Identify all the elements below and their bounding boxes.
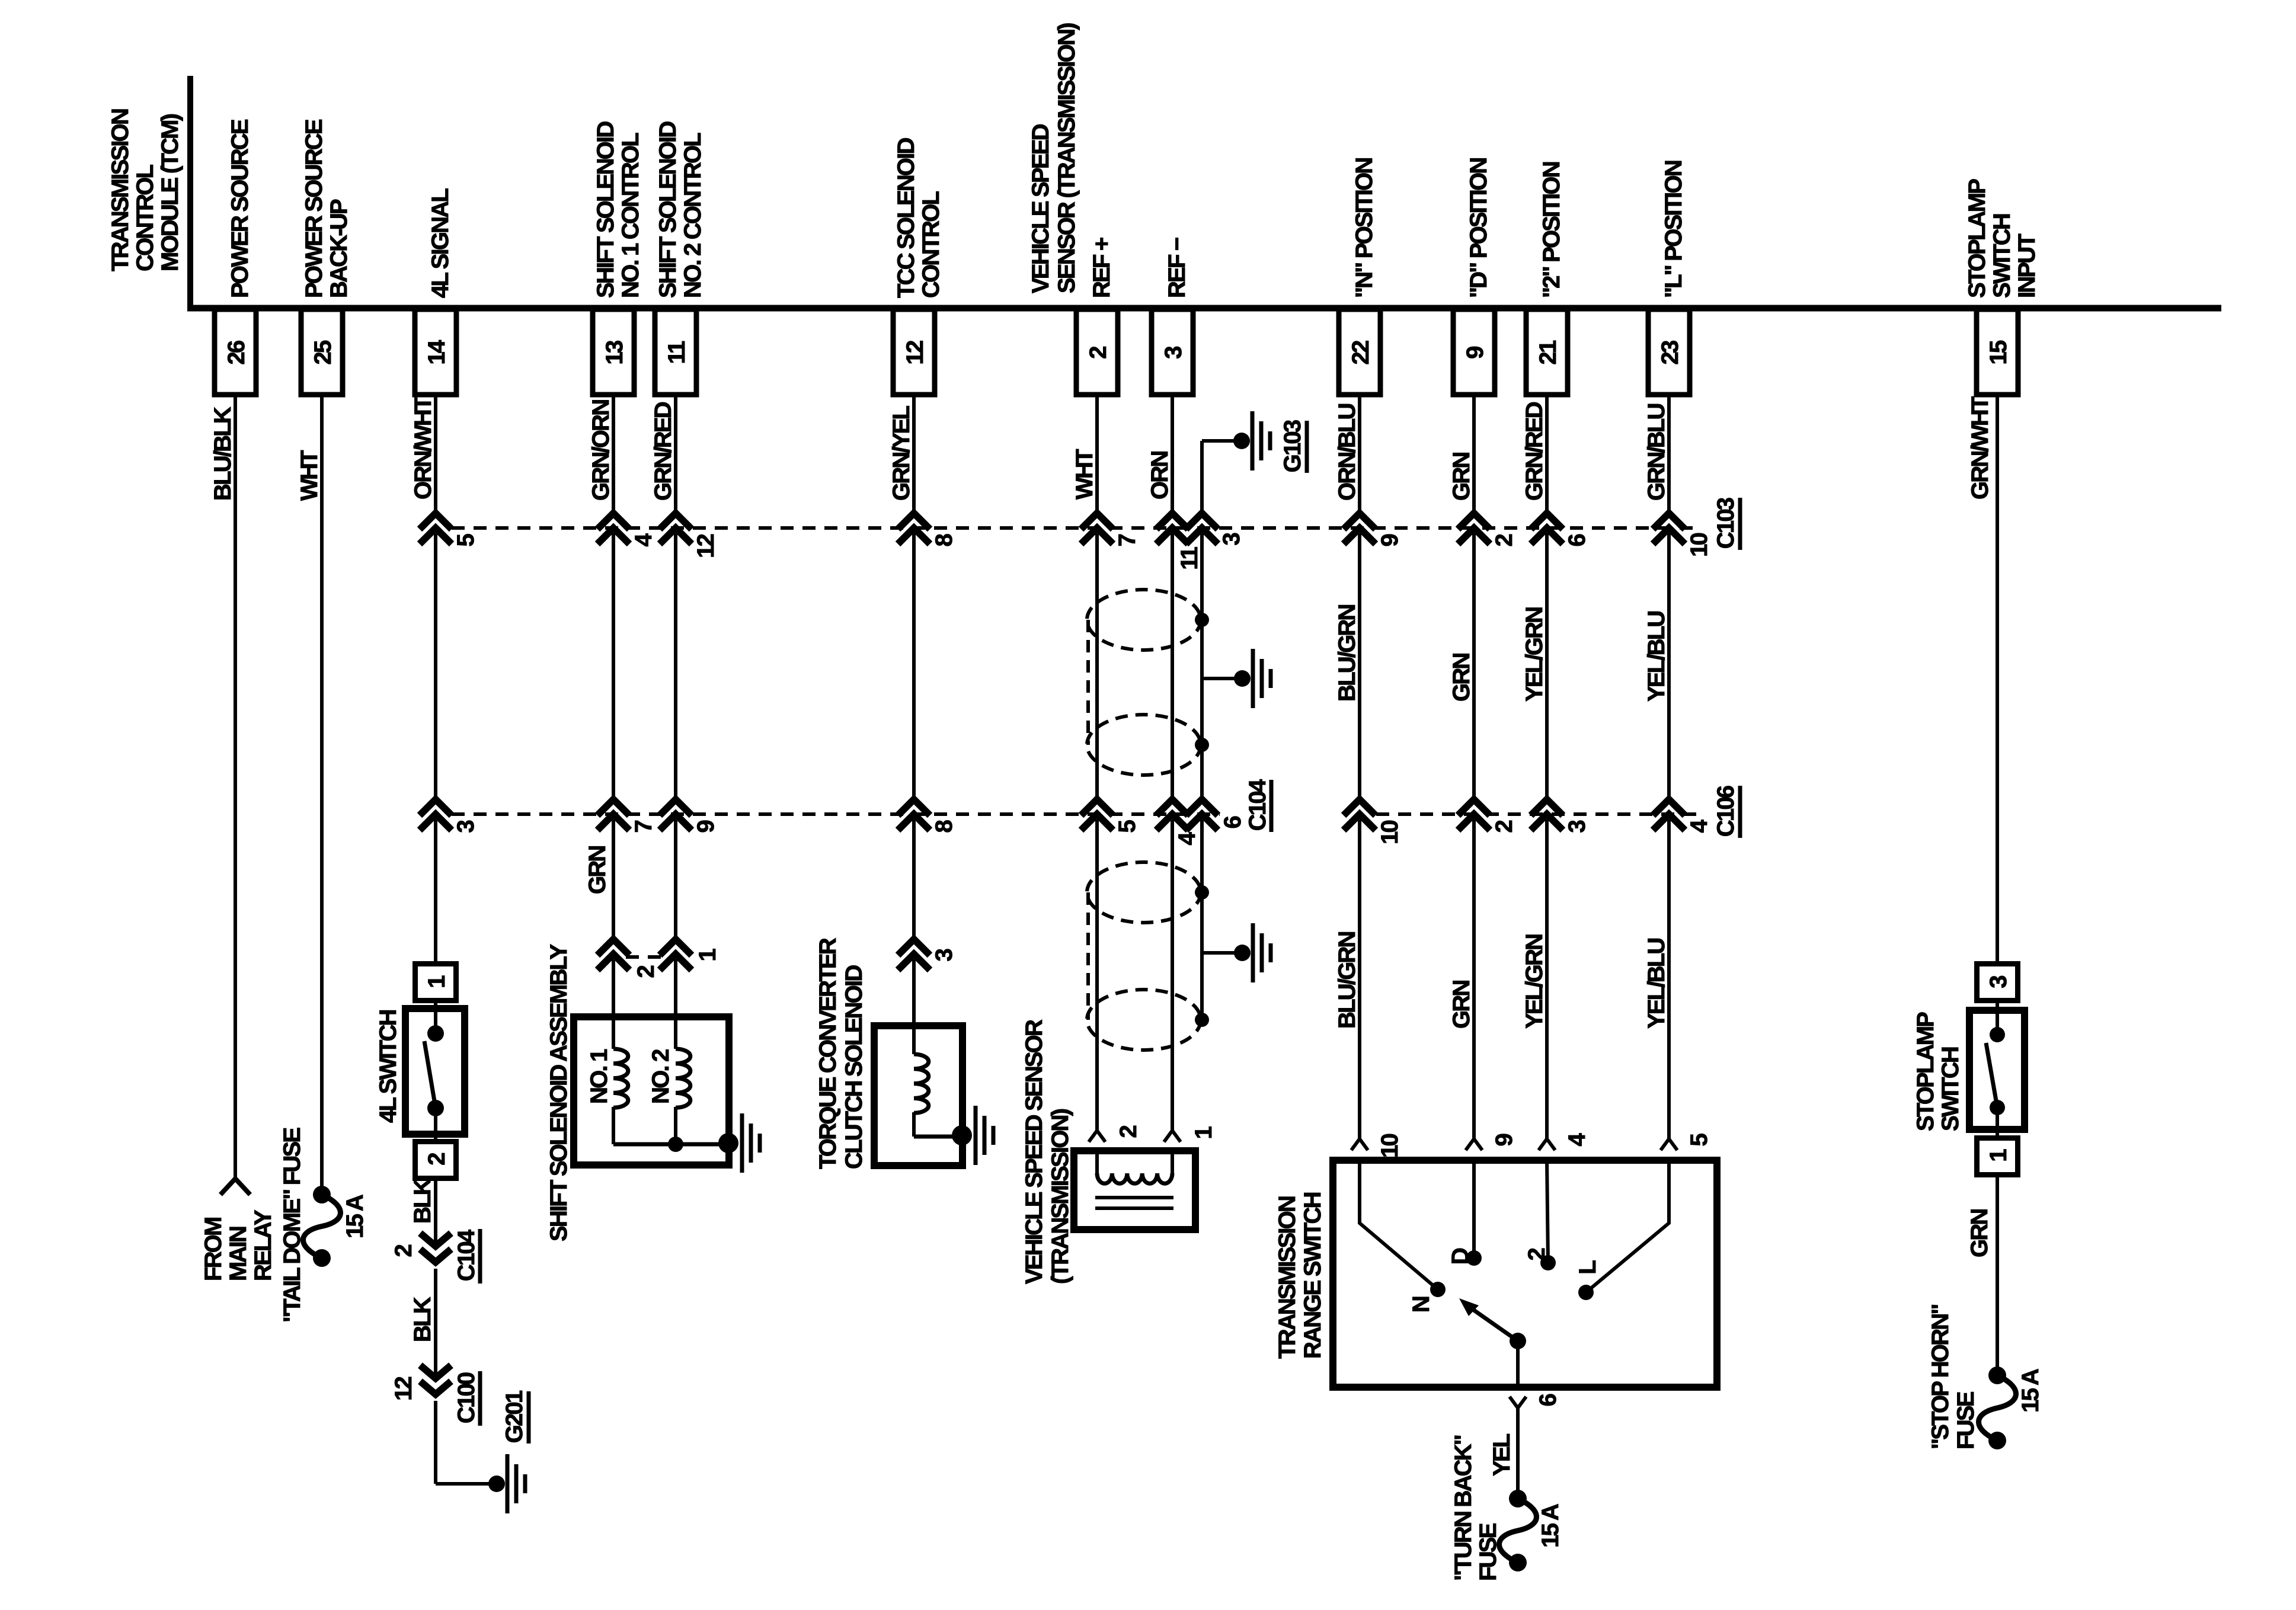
connector C104 pin 6 chevron (drain) [1186,799,1218,815]
svg-text:5: 5 [453,533,479,546]
range switch contact 2 [1540,1255,1556,1270]
svg-text:SWITCH: SWITCH [1989,214,2015,298]
VSS core line 2 [1095,1206,1173,1210]
wire (C103 to C104) [912,533,916,799]
solenoid NO.2 lead (top) [674,1017,677,1049]
svg-text:REF −: REF − [1164,238,1190,298]
stoplamp switch internal wire (top) [1996,1003,1999,1035]
svg-text:8: 8 [931,533,957,546]
wire GRN (C103 to C106) [1472,533,1476,799]
svg-text:TRANSMISSION: TRANSMISSION [1274,1196,1300,1359]
svg-text:9: 9 [1491,1134,1517,1146]
range switch wiper arrow [1472,1309,1518,1341]
stoplamp switch lower contact [1990,1100,2005,1115]
4L switch internal wire (top) [434,1003,437,1033]
TCM pin 11 SHIFT SOLENOID NO.2 CONTROL [655,121,706,395]
4L switch pin 2 box [415,1142,456,1179]
label TORQUE CONVERTER CLUTCH SOLENOID [815,937,867,1169]
wire YEL/GRN (C106 to range switch) [1545,820,1549,1139]
svg-text:11: 11 [664,341,690,364]
C100 label underline [478,1371,482,1426]
shield upper ground dot [1234,670,1251,687]
wire GRN/RED (2 position, TCM to C103) [1545,395,1549,513]
ground G103 symbol [1251,411,1255,470]
TCM pin 21 2 POSITION [1526,162,1568,395]
svg-text:9: 9 [1377,534,1403,546]
connector C103 pin 11 chevron [1156,513,1188,529]
4L switch body [405,1009,465,1134]
svg-text:C103: C103 [1713,498,1739,549]
svg-text:2: 2 [424,1153,450,1166]
shield left dashed side (lower pair) [1086,892,1090,1020]
svg-text:FUSE: FUSE [1953,1391,1979,1449]
VSS terminal 1 [1164,1131,1181,1142]
C104 dashed connector line [452,812,1220,816]
svg-text:8: 8 [931,820,957,833]
label STOPLAMP SWITCH [1913,1012,1964,1131]
shield left dashed side (upper pair) [1086,620,1090,745]
wire ORN (pin 3 REF-) [1171,395,1174,513]
svg-text:6: 6 [1220,816,1246,828]
shield drain junction dot 4 [1195,1013,1209,1027]
svg-text:C104: C104 [453,1229,479,1281]
svg-text:NO. 1 CONTROL: NO. 1 CONTROL [618,133,644,298]
TCM pin 13 SHIFT SOLENOID NO.1 CONTROL [593,121,644,395]
shield drain junction dot 1 [1195,613,1209,627]
shield lower ground branch [1202,951,1242,955]
svg-text:TCC SOLENOID: TCC SOLENOID [893,137,919,298]
solenoid NO.1 lead (bottom) [612,1107,615,1144]
ground G201 symbol [506,1454,510,1513]
wire BLK (4L switch to C104) [434,1179,437,1246]
svg-text:2: 2 [1491,820,1517,833]
label FROM MAIN RELAY [200,1209,276,1281]
svg-text:4L SWITCH: 4L SWITCH [375,1010,401,1123]
C106 dashed connector line [1376,812,1697,816]
wire elbow to G201 [436,1482,497,1486]
svg-text:2: 2 [1524,1248,1550,1260]
wire ORN/WHT (pin 14 to C103) [434,395,437,513]
wire BLK (C104 to C100) [434,1269,437,1378]
svg-text:1: 1 [1985,1149,2012,1162]
C103 label underline [1738,498,1742,550]
wire YEL/BLU (C106 to range switch) [1667,820,1671,1139]
connector C104 pin 8 chevron [898,799,930,815]
shift solenoid assembly connector dashed segment [626,955,666,959]
stoplamp switch pin 3 box [1977,964,2018,1001]
TCC connector pin 3 chevron [898,939,930,955]
svg-text:3: 3 [453,820,479,833]
svg-text:GRN: GRN [1448,654,1475,702]
VSS terminal 2 [1089,1131,1105,1142]
svg-text:SHIFT SOLENOID: SHIFT SOLENOID [655,121,681,298]
svg-text:G103: G103 [1280,420,1306,472]
range switch lead D (from terminal 9) [1472,1160,1476,1258]
svg-text:CONTROL: CONTROL [132,164,158,271]
svg-text:15 A: 15 A [1537,1504,1563,1548]
4L switch upper contact [427,1025,444,1042]
range switch terminal 10 [1351,1139,1368,1150]
svg-text:POWER SOURCE: POWER SOURCE [227,119,253,298]
wire (connector to solenoid box) [674,959,677,1017]
svg-text:"STOP HORN": "STOP HORN" [1927,1305,1953,1449]
svg-text:FROM: FROM [200,1218,226,1281]
TCM pin 9 D POSITION [1453,158,1495,395]
shield drain junction dot 3 [1195,885,1209,900]
TCM left bracket line [187,76,193,308]
svg-text:SHIFT SOLENOID ASSEMBLY: SHIFT SOLENOID ASSEMBLY [546,944,572,1241]
svg-text:3: 3 [1160,347,1187,359]
solenoid NO.1 coil [613,1049,628,1108]
TCM pin 15 STOPLAMP SWITCH INPUT [1964,179,2040,395]
junction dot at TCC box edge [952,1125,972,1145]
wire ORN (C103 to C104) [1171,533,1174,799]
svg-text:9: 9 [1462,347,1488,359]
range switch pivot lead [1516,1341,1520,1391]
shield upper ground branch [1202,677,1242,680]
svg-text:4L SIGNAL: 4L SIGNAL [427,188,453,298]
wire ORN (C104 to VSS) [1171,820,1174,1131]
svg-text:1: 1 [695,948,721,961]
svg-text:25: 25 [310,340,336,364]
wire GRN/ORN (shift solenoid NO.1) [612,395,615,513]
svg-text:"D" POSITION: "D" POSITION [1466,158,1492,298]
svg-text:"L" POSITION: "L" POSITION [1661,161,1687,298]
svg-text:C100: C100 [453,1372,479,1423]
connector C104 pin 3 chevron [420,799,452,815]
svg-text:2: 2 [1085,347,1111,359]
VSS coil lead (left) [1095,1154,1099,1173]
ground (TCC solenoid) [974,1106,978,1165]
wire GRN/RED (shift solenoid NO.2) [674,395,677,513]
wire (C103 to C104) [674,533,677,799]
svg-text:YEL: YEL [1489,1433,1515,1476]
wire BLU/GRN (C106 to range switch) [1358,820,1361,1139]
svg-text:ORN/BLU: ORN/BLU [1334,404,1360,501]
svg-text:GRN/RED: GRN/RED [1521,402,1547,501]
svg-text:ORN/WHT: ORN/WHT [410,396,436,500]
connector C103 pin 10 chevron [1653,513,1685,529]
wire (C104 to 4L switch pin 1) [434,820,437,964]
connector C100 pin 12 chevron (down) [420,1365,451,1378]
TCM pin 26 POWER SOURCE [215,119,256,395]
connector C103 pin 12 chevron [660,513,692,529]
svg-text:MODULE (TCM): MODULE (TCM) [157,114,183,271]
connector C104 pin 4 chevron [1156,799,1188,815]
stoplamp switch blade [1986,1043,1997,1108]
svg-text:15: 15 [1985,340,2012,364]
svg-text:SWITCH: SWITCH [1937,1047,1964,1131]
from main relay fork symbol [220,1179,250,1195]
range switch terminal 5 [1661,1139,1677,1150]
wire GRN (D position, TCM to C103) [1472,395,1476,513]
TCM pin 22 N POSITION [1339,158,1380,395]
VSS core line 1 [1095,1196,1173,1199]
wire (C104 to solenoid connector) [674,820,677,939]
transmission range switch box [1333,1160,1717,1387]
solenoid NO.1 lead (top) [612,1017,615,1049]
svg-text:SENSOR (TRANSMISSION): SENSOR (TRANSMISSION) [1054,23,1080,293]
TCC coil lead (top) [912,1026,916,1054]
svg-text:REF +: REF + [1089,238,1115,298]
svg-text:N: N [1408,1297,1434,1313]
junction dot at box edge [718,1133,738,1153]
vehicle speed sensor box [1074,1151,1195,1230]
svg-text:23: 23 [1657,341,1683,364]
solenoid connector pin 1 chevron [660,939,692,955]
range switch pivot [1510,1333,1526,1349]
TCM pin 14 4L SIGNAL [415,188,456,395]
svg-text:TORQUE CONVERTER: TORQUE CONVERTER [815,937,841,1169]
VSS pickup coil [1097,1173,1172,1183]
svg-text:POWER SOURCE: POWER SOURCE [301,119,327,298]
svg-text:14: 14 [424,340,450,364]
VSS coil lead (right) [1171,1154,1174,1173]
svg-text:3: 3 [1985,976,2012,988]
connector C103 pin 5 chevron (ORN/WHT) [420,513,452,529]
svg-text:2: 2 [633,965,659,978]
TCM pin 3 REF- [1152,238,1193,395]
connector C104 pin 2 chevron (down) [420,1233,451,1246]
range switch contact N [1430,1282,1446,1297]
svg-text:GRN/BLU: GRN/BLU [1643,404,1670,501]
stoplamp switch body [1969,1010,2025,1129]
wire (connector to TCC solenoid) [912,959,916,1026]
TCM pin 12 TCC SOLENOID CONTROL [893,137,944,395]
svg-text:RANGE SWITCH: RANGE SWITCH [1300,1192,1326,1359]
svg-text:BLU/GRN: BLU/GRN [1334,932,1360,1029]
stoplamp switch upper contact [1990,1027,2005,1042]
TCM pin 2 REF+ [1076,238,1118,395]
svg-text:D: D [1447,1248,1473,1265]
svg-text:VEHICLE SPEED SENSOR: VEHICLE SPEED SENSOR [1021,1019,1047,1284]
C104 (VSS branch) label underline [1269,780,1274,832]
svg-text:FUSE: FUSE [1475,1523,1501,1581]
wire GRN (stoplamp switch to stop horn fuse) [1996,1176,1999,1375]
label "TURN BACK" FUSE [1450,1435,1501,1581]
connector C103 pin 8 chevron [898,513,930,529]
TCC coil lead (bottom) [912,1112,916,1137]
connector C106 pin 10 chevron [1344,799,1376,815]
ground (shift solenoid assembly) [740,1113,744,1173]
connector C104 pin 5 chevron [1081,799,1113,815]
wire BLU/GRN (C103 to C106) [1358,533,1361,799]
wire YEL/GRN (C103 to C106) [1545,533,1549,799]
range switch lead 2 (from terminal 4) [1547,1160,1548,1263]
C104 label underline [478,1229,482,1283]
shield lower ground dot [1234,945,1251,961]
connector C103 pin 6 chevron [1531,513,1563,529]
svg-text:12: 12 [693,534,719,558]
range switch lead L (from terminal 5) [1586,1160,1669,1292]
connector C106 pin 2 chevron [1458,799,1490,815]
label: TRANSMISSION CONTROL MODULE (TCM) [107,109,183,271]
wire WHT (pin 2 REF+) [1095,395,1099,513]
range switch contact D [1466,1250,1482,1266]
svg-text:GRN/YEL: GRN/YEL [888,405,914,501]
svg-text:ORN: ORN [1147,452,1173,500]
TCM bus line [187,305,2221,312]
TCM pin 23 L POSITION [1648,161,1690,395]
svg-text:GRN: GRN [1448,453,1475,501]
shield drain wire elbow to G103 [1202,439,1242,443]
svg-text:GRN: GRN [1966,1209,1993,1257]
stoplamp switch internal wire (bottom) [1996,1108,1999,1138]
connector C104 pin 9 chevron [660,799,692,815]
svg-text:GRN: GRN [1448,981,1475,1029]
shield drain wire (below C104) [1200,820,1204,1020]
C106 label underline [1738,786,1742,838]
connector C103 pin 7 chevron [1081,513,1113,529]
svg-text:(TRANSMISSION): (TRANSMISSION) [1047,1109,1073,1284]
svg-text:7: 7 [631,820,657,833]
svg-text:YEL/BLU: YEL/BLU [1643,939,1670,1029]
svg-text:6: 6 [1564,534,1590,546]
4L switch pin 1 box [415,964,456,1001]
svg-text:G201: G201 [501,1390,527,1443]
svg-text:15 A: 15 A [342,1195,368,1238]
svg-text:YEL/BLU: YEL/BLU [1643,612,1670,702]
C103 dashed connector line [452,526,1696,530]
label: VEHICLE SPEED SENSOR (TRANSMISSION) header [1028,23,1080,293]
wire YEL (range switch to turn back fuse) [1516,1408,1520,1499]
shield ellipse 4 [1087,990,1201,1050]
"STOP HORN" fuse 15 A [1979,1366,2016,1449]
wire (C103 to C104) [612,533,615,799]
solenoid NO.2 lead (bottom) [674,1107,677,1144]
shield drain junction dot 2 [1195,738,1209,752]
TCC ground link [914,1135,962,1139]
TCC solenoid coil [914,1054,929,1113]
svg-text:"TURN BACK": "TURN BACK" [1450,1435,1476,1581]
range switch contact L [1578,1285,1594,1300]
svg-text:BLU/GRN: BLU/GRN [1334,604,1360,702]
wire BLU/BLK (pin 26 to main relay) [234,395,237,1178]
svg-text:15 A: 15 A [2017,1369,2044,1413]
svg-text:STOPLAMP: STOPLAMP [1913,1012,1939,1131]
svg-text:C104: C104 [1245,779,1271,831]
svg-text:6: 6 [1535,1394,1561,1406]
svg-text:2: 2 [1491,534,1517,546]
wire ORN/BLU (N position, TCM to C103) [1358,395,1361,513]
svg-text:10: 10 [1377,1134,1403,1157]
ground (shield, upper) [1251,649,1255,708]
ground (shield, lower) [1251,923,1255,982]
solenoid connector pin 2 chevron [597,939,629,955]
ground G201 junction dot [488,1475,505,1492]
4L switch internal wire (bottom) [434,1108,437,1141]
svg-text:26: 26 [223,341,250,364]
junction dot (NO.2 to common) [668,1137,683,1152]
svg-text:"TAIL DOME" FUSE: "TAIL DOME" FUSE [279,1128,305,1323]
range switch terminal 4 [1539,1139,1555,1150]
wire (C104 to solenoid connector) [612,820,615,939]
svg-text:11: 11 [1176,546,1203,569]
wire (connector to solenoid box) [612,959,615,1017]
svg-text:13: 13 [602,341,628,364]
torque converter clutch solenoid box [874,1026,962,1166]
svg-text:CLUTCH SOLENOID: CLUTCH SOLENOID [841,965,867,1169]
4L switch blade [424,1041,436,1108]
"TURN BACK" fuse 15 A [1499,1490,1537,1571]
TCM pin 25 POWER SOURCE BACK-UP [301,119,352,395]
wire WHT (C103 to C104) [1095,533,1099,799]
svg-text:NO. 2 CONTROL: NO. 2 CONTROL [680,133,706,298]
svg-text:MAIN: MAIN [225,1227,251,1281]
wire GRN/YEL (pin 12 to C103) [912,395,916,513]
range switch lead N (from terminal 10) [1360,1160,1438,1289]
svg-text:BACK-UP: BACK-UP [326,199,352,298]
svg-text:NO. 2: NO. 2 [648,1049,674,1104]
range switch terminal 9 [1466,1139,1482,1150]
connector C103 pin 9 chevron [1344,513,1376,529]
wire (C104 to TCC connector) [912,820,916,939]
shift solenoid assembly box [574,1017,729,1165]
svg-text:7: 7 [1114,534,1140,546]
label "STOP HORN" FUSE [1927,1305,1979,1449]
svg-text:CONTROL: CONTROL [918,191,944,298]
svg-text:WHT: WHT [296,450,322,501]
wire ORN/WHT (C103 to C104) [434,533,437,799]
svg-text:2: 2 [1115,1125,1141,1138]
svg-text:3: 3 [931,949,957,961]
svg-text:10: 10 [1377,820,1403,844]
svg-text:BLK: BLK [410,1178,436,1224]
svg-text:RELAY: RELAY [250,1209,276,1281]
connector C104 pin 7 chevron [597,799,629,815]
wire YEL/BLU (C103 to C106) [1667,533,1671,799]
stoplamp switch pin 1 box [1977,1138,2018,1175]
svg-text:SHIFT SOLENOID: SHIFT SOLENOID [593,121,619,298]
connector C106 pin 3 chevron [1531,799,1563,815]
wire GRN (C106 to range switch) [1472,820,1476,1139]
shield drain wire (G103 to C103) [1200,441,1204,513]
svg-text:3: 3 [1219,533,1245,545]
svg-text:2: 2 [391,1244,417,1257]
shield drain wire (C103 to C104) [1200,533,1204,799]
svg-text:BLK: BLK [410,1297,436,1342]
range switch terminal 6 (below box) [1510,1397,1526,1408]
svg-text:22: 22 [1348,341,1374,364]
svg-text:GRN: GRN [584,846,610,894]
wire GRN/BLU (L position, TCM to C103) [1667,395,1671,513]
svg-text:GRN/WHT: GRN/WHT [1967,396,1993,500]
solenoid NO.2 coil [676,1049,690,1108]
svg-text:3: 3 [1564,820,1590,833]
svg-text:YEL/GRN: YEL/GRN [1521,934,1547,1029]
svg-text:VEHICLE SPEED: VEHICLE SPEED [1028,124,1054,293]
svg-text:BLU/BLK: BLU/BLK [210,406,236,501]
connector C103 pin 2 chevron [1458,513,1490,529]
connector C103 pin 4 chevron [597,513,629,529]
svg-text:5: 5 [1114,820,1140,833]
svg-text:12: 12 [902,341,928,364]
wire WHT (pin 25 to tail dome fuse) [320,395,324,1195]
shield ellipse 3 [1087,862,1201,923]
wire WHT (C104 to VSS) [1095,820,1099,1131]
4L switch lower contact [427,1100,444,1116]
connector C103 pin 3 chevron (drain) [1186,513,1218,529]
G201 label underline [527,1391,531,1443]
connector C106 pin 4 chevron [1653,799,1685,815]
svg-text:L: L [1575,1260,1601,1275]
svg-text:INPUT: INPUT [2014,234,2040,298]
svg-text:10: 10 [1686,533,1712,556]
svg-text:"2" POSITION: "2" POSITION [1539,162,1565,298]
svg-text:STOPLAMP: STOPLAMP [1964,179,1990,298]
svg-text:C106: C106 [1713,786,1739,837]
shield ellipse 2 [1087,715,1201,775]
